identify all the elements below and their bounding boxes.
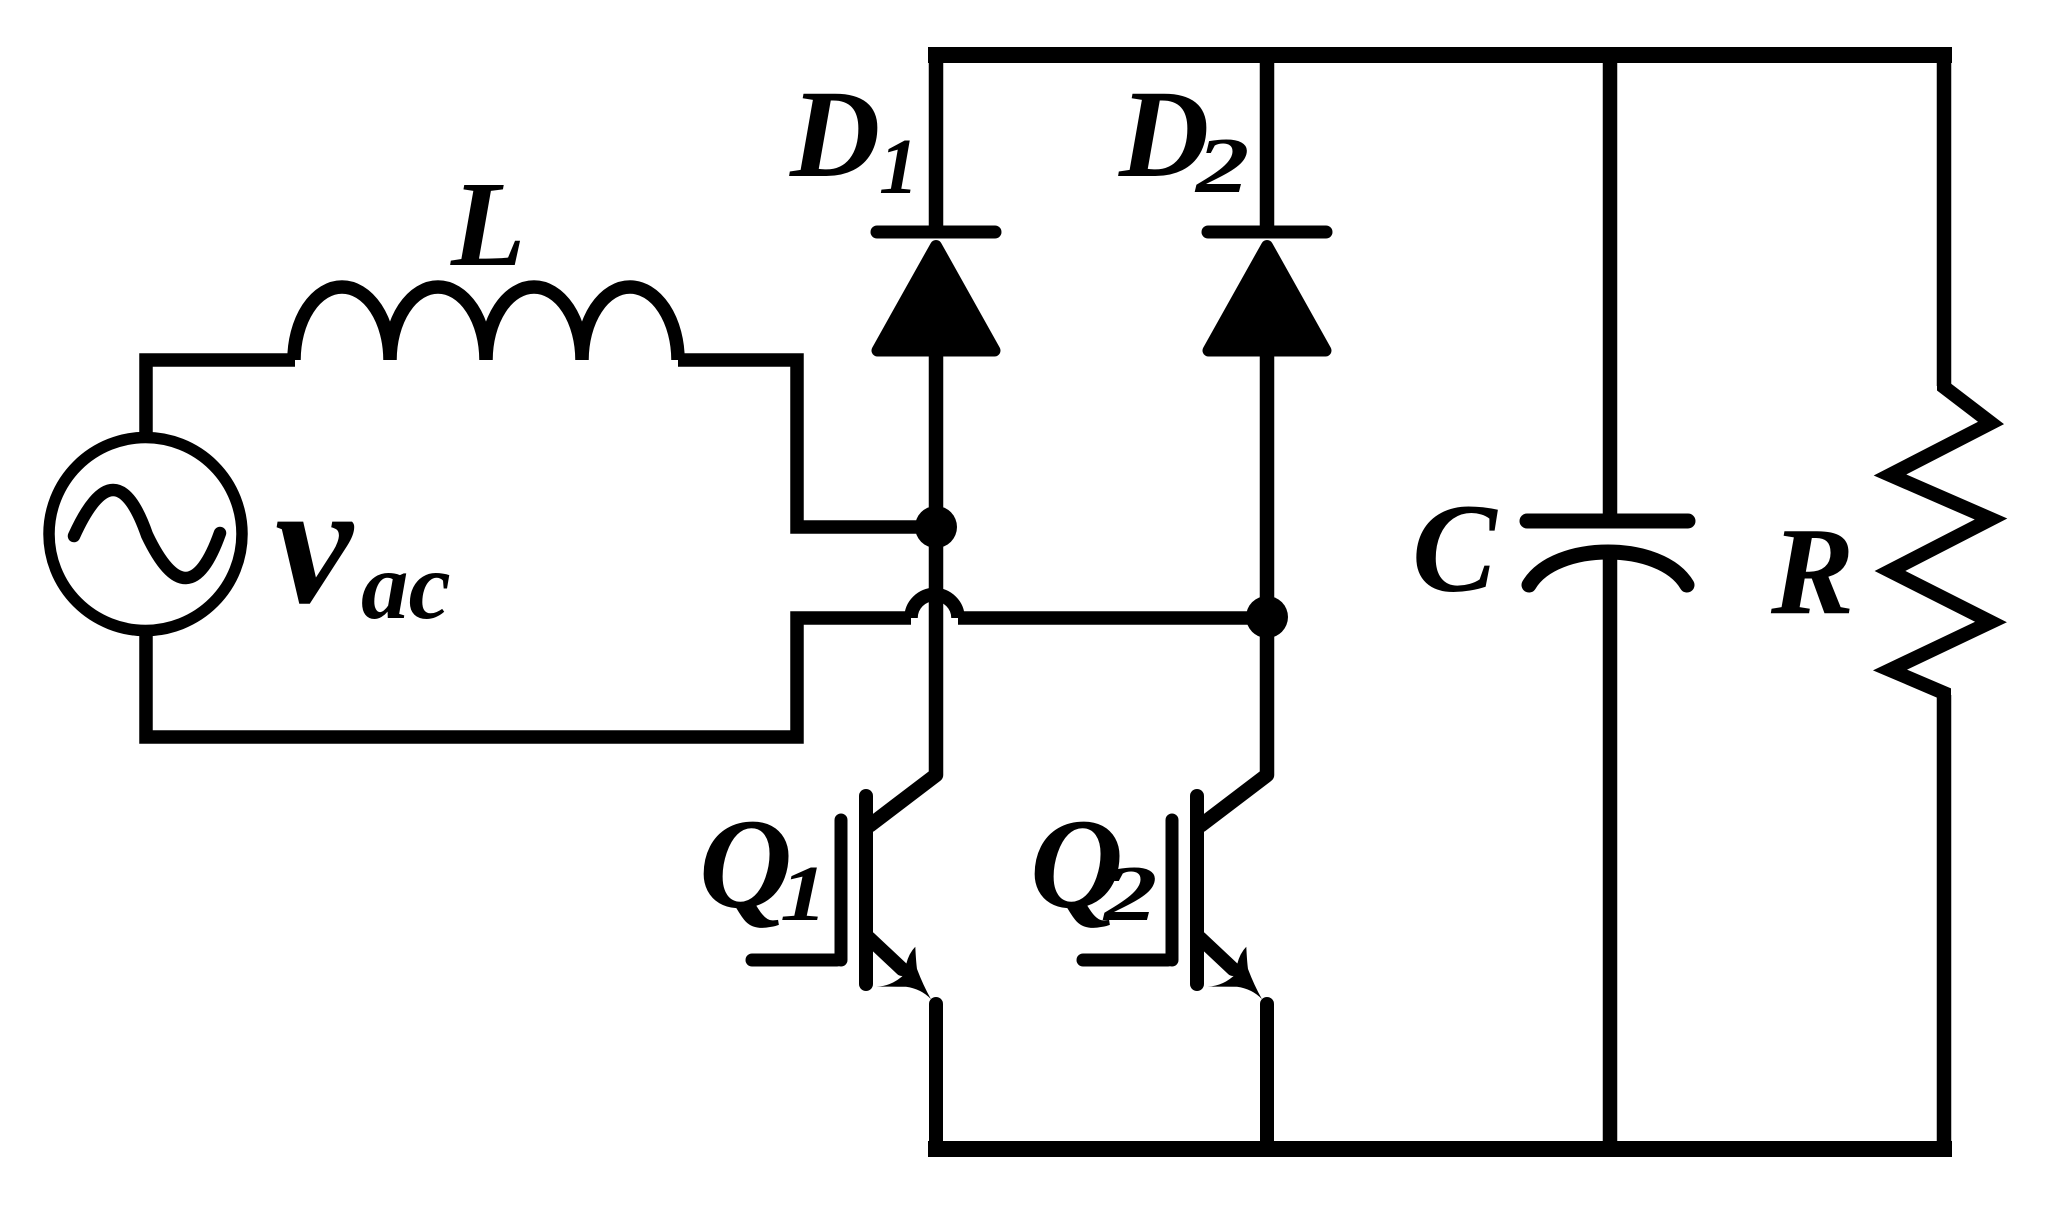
wire top rail	[928, 47, 1952, 63]
diode D1	[877, 232, 995, 351]
label Q2	[1030, 792, 1157, 938]
label vac	[275, 446, 451, 640]
wire D1 anode to node A	[929, 350, 944, 527]
wire node B to Q2 collector	[1200, 617, 1267, 826]
wire node A to Q1 collector	[869, 527, 936, 826]
wire leg3 rail to capacitor	[1603, 47, 1618, 521]
capacitor C	[1527, 521, 1688, 585]
svg-text:2: 2	[1102, 850, 1158, 938]
wire Q1 emitter to bottom rail	[929, 1004, 943, 1149]
svg-text:Q: Q	[699, 792, 792, 935]
wire leg4 rail to resistor	[1937, 47, 1952, 386]
resistor R	[1890, 380, 1991, 700]
wire resistor to bottom rail	[1937, 695, 1952, 1149]
svg-text:C: C	[1412, 479, 1498, 619]
svg-text:ac: ac	[361, 533, 451, 639]
label D2	[1118, 66, 1249, 210]
wire hop crossing over leg1	[911, 594, 958, 618]
label D1	[789, 66, 919, 211]
ac source vac	[49, 438, 242, 631]
svg-text:R: R	[1770, 503, 1854, 641]
node B junction dot	[1246, 596, 1288, 638]
diode D2	[1208, 232, 1326, 351]
transistor Q2 IGBT	[1083, 796, 1262, 999]
svg-text:D: D	[789, 66, 880, 204]
wire vac minus return	[146, 618, 911, 737]
wire inductor to node A	[678, 360, 925, 527]
node A junction dot	[915, 506, 957, 548]
svg-text:L: L	[450, 157, 526, 292]
wire capacitor to bottom rail	[1603, 548, 1618, 1149]
wire Q2 emitter to bottom rail	[1260, 1004, 1274, 1149]
inductor L	[294, 287, 678, 360]
svg-text:1: 1	[780, 849, 827, 937]
transistor Q1 IGBT	[752, 796, 931, 999]
label Q1	[699, 792, 827, 937]
wire vac plus to inductor	[146, 360, 295, 442]
wire hop to node B	[958, 611, 1260, 625]
wire D2 anode to node B	[1260, 350, 1275, 617]
wire bottom rail	[928, 1141, 1952, 1157]
svg-text:1: 1	[879, 124, 919, 211]
svg-text:v: v	[275, 446, 355, 640]
wire leg2 rail to D2 cathode	[1260, 47, 1275, 235]
wire leg1 rail to D1 cathode	[929, 47, 944, 235]
svg-text:2: 2	[1194, 122, 1250, 210]
